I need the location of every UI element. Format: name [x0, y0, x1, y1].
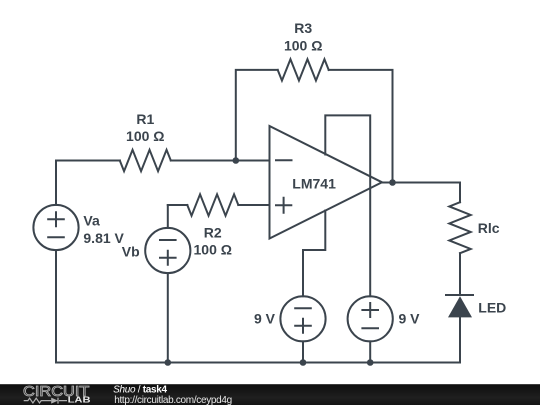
svg-text:Vb: Vb	[122, 243, 140, 259]
svg-text:LED: LED	[478, 299, 506, 315]
svg-text:Va: Va	[83, 213, 100, 229]
svg-text:Shuo / task4: Shuo / task4	[113, 385, 167, 396]
svg-text:Rlc: Rlc	[478, 220, 500, 236]
svg-text:100 Ω: 100 Ω	[194, 242, 232, 258]
svg-text:LM741: LM741	[292, 175, 336, 191]
svg-text:http://circuitlab.com/ceypd4g: http://circuitlab.com/ceypd4g	[114, 395, 232, 405]
svg-text:LAB: LAB	[68, 396, 91, 405]
svg-text:R2: R2	[204, 224, 222, 240]
svg-text:100 Ω: 100 Ω	[126, 128, 164, 144]
svg-text:R1: R1	[136, 111, 154, 127]
svg-text:9.81 V: 9.81 V	[83, 230, 124, 246]
svg-text:9 V: 9 V	[399, 310, 421, 326]
svg-text:100 Ω: 100 Ω	[284, 37, 322, 53]
svg-text:9 V: 9 V	[254, 310, 276, 326]
svg-text:R3: R3	[294, 20, 312, 36]
